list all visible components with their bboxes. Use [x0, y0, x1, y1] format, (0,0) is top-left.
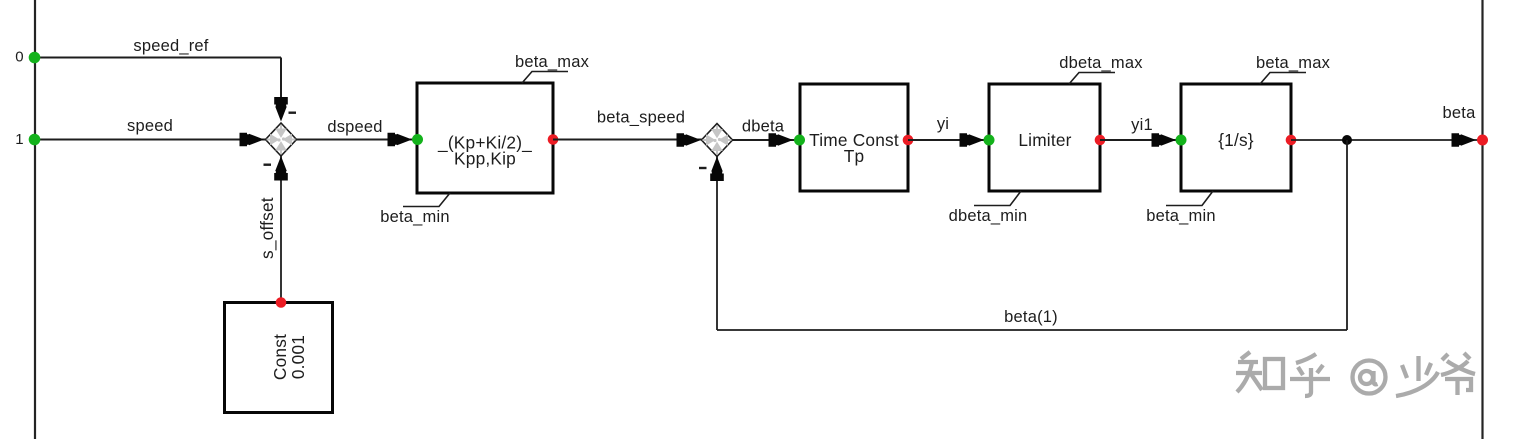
wire speed_ref vertical drop [280, 58, 282, 105]
dbeta_max leader U3 [1069, 73, 1115, 85]
feedback wire vertical left up to J2 [716, 156, 718, 330]
wire yi1 [1100, 139, 1178, 141]
beta_min leader U4 [1166, 191, 1213, 206]
svg-text:Limiter: Limiter [1018, 130, 1071, 150]
page right border [1481, 0, 1483, 439]
svg-text:0: 0 [15, 49, 24, 66]
output port dot U4 red [1286, 135, 1297, 146]
wire s_offset vertical [280, 155, 282, 302]
svg-text:Kpp,Kip: Kpp,Kip [454, 149, 516, 169]
minus sign bottom input J1 [264, 164, 272, 166]
wire speed [35, 139, 266, 141]
svg-text:1: 1 [15, 131, 24, 148]
arrow into summing junction 1 bottom [274, 156, 288, 181]
ye: top (father) [1442, 354, 1448, 360]
feedback wire horizontal [717, 329, 1347, 331]
svg-text:0.001: 0.001 [288, 335, 308, 379]
svg-text:speed: speed [127, 117, 173, 135]
summing junction J1 [266, 123, 297, 156]
minus sign top input J1 [289, 112, 297, 114]
wire dbeta [733, 139, 796, 141]
svg-text:yi: yi [937, 115, 949, 133]
arrow into summing junction 1 top [274, 97, 288, 122]
svg-text:beta: beta [1443, 104, 1477, 122]
svg-text:speed_ref: speed_ref [133, 37, 208, 55]
output port dot U2 red [903, 135, 914, 146]
arrow into integrator [1152, 133, 1177, 147]
watermark zhihu @shaoye [1236, 352, 1475, 396]
arrow into Time Const block [769, 133, 794, 147]
svg-text:Tp: Tp [844, 146, 865, 166]
at sign [1353, 361, 1386, 394]
dbeta_min leader U3 [974, 191, 1021, 206]
output port dot U1 red [548, 134, 559, 145]
ye: bottom seal [1445, 379, 1471, 390]
svg-text:Const: Const [270, 334, 290, 380]
svg-text:{1/s}: {1/s} [1218, 130, 1254, 150]
gain block U1 (Kp+Ki/2) [417, 83, 553, 193]
svg-text:beta(1): beta(1) [1004, 308, 1058, 326]
svg-text:beta_min: beta_min [1146, 207, 1215, 225]
input port dot U3 green [984, 135, 995, 146]
page left border [34, 0, 36, 439]
svg-text:dbeta_max: dbeta_max [1059, 54, 1143, 72]
beta_max leader U4 [1260, 73, 1306, 85]
svg-text:beta_speed: beta_speed [597, 109, 685, 127]
svg-text:dspeed: dspeed [327, 118, 382, 136]
beta_max leader U1 [522, 72, 568, 84]
output node red dot [1477, 135, 1488, 146]
input node dot 1 green [29, 134, 41, 146]
wire beta output [1291, 139, 1478, 141]
arrow into gain block [388, 133, 413, 147]
input node dot 0 green [29, 52, 41, 64]
beta_min leader U1 [403, 193, 450, 207]
svg-text:beta_max: beta_max [1256, 54, 1331, 72]
hu [1296, 354, 1316, 363]
shao [1416, 356, 1420, 381]
wire yi [908, 139, 986, 141]
input port dot U1 green [412, 134, 423, 145]
svg-text:dbeta: dbeta [742, 118, 785, 136]
svg-text:beta_min: beta_min [380, 208, 449, 226]
zhi: left radical [1241, 352, 1250, 359]
output port dot U3 red [1095, 135, 1106, 146]
Const output port dot red [276, 297, 287, 308]
summing junction J2 [702, 124, 733, 157]
svg-text:yi1: yi1 [1131, 116, 1153, 134]
wire beta_speed [553, 139, 702, 141]
Const block [225, 303, 333, 413]
Time Const block U2 [800, 84, 908, 191]
svg-text:beta_max: beta_max [515, 53, 590, 71]
arrow into Limiter [960, 133, 985, 147]
svg-text:s_offset: s_offset [257, 197, 277, 259]
minus sign bottom input J2 [699, 167, 707, 169]
arrow to output node [1452, 133, 1477, 147]
feedback wire vertical right [1346, 140, 1348, 330]
junction dot feedback [1342, 135, 1352, 145]
svg-text:dbeta_min: dbeta_min [949, 207, 1028, 225]
integrator block U4 {1/s} [1181, 84, 1291, 191]
arrow into summing junction 2 bottom [710, 157, 724, 182]
arrow into summing junction 2 [677, 133, 702, 147]
wire dspeed [297, 139, 415, 141]
input port dot U4 green [1176, 135, 1187, 146]
arrow into summing junction 1 left [240, 133, 265, 147]
Limiter block U3 [989, 84, 1100, 191]
zhi: mouth box [1265, 359, 1283, 388]
wire speed_ref horizontal [35, 57, 281, 59]
input port dot U2 green [794, 135, 805, 146]
